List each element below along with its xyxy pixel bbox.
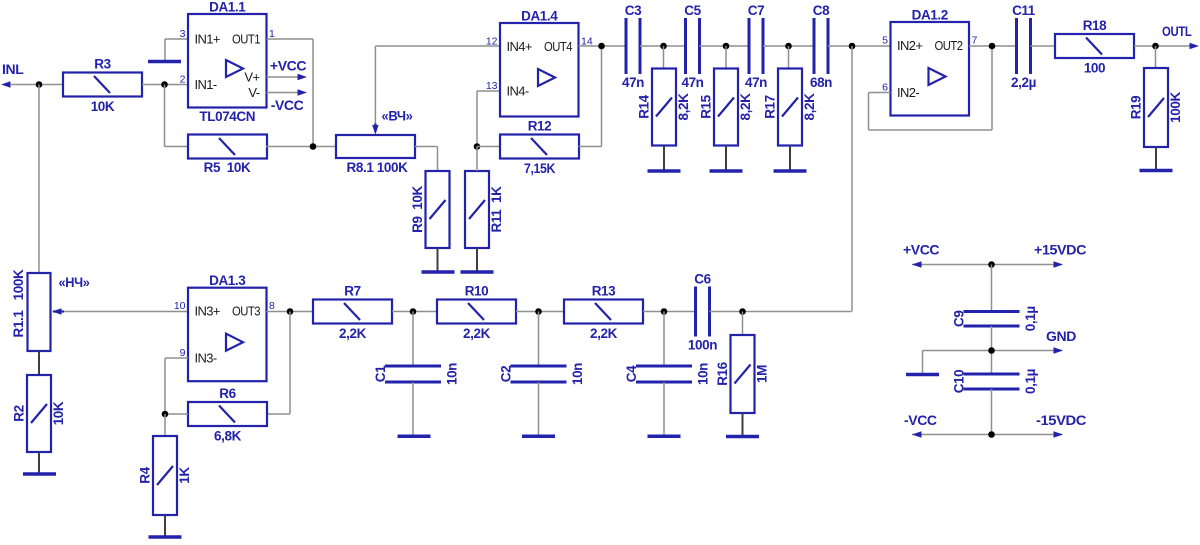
resistor R14 [637, 69, 692, 146]
ground under R14 [648, 169, 681, 173]
ground under R15 [710, 169, 743, 173]
op-amp DA1.4 [486, 9, 593, 117]
-15VDC right arrow [1054, 431, 1064, 438]
svg-text:47n: 47n [622, 75, 644, 90]
R1.1 wiper arrow [52, 308, 62, 315]
wire R19 to ground [1155, 147, 1157, 169]
wire R7 to R10 [392, 311, 437, 313]
svg-text:DA1.3: DA1.3 [209, 273, 246, 288]
resistor R7 [313, 284, 392, 342]
junction -VCC/C10 [988, 431, 995, 438]
svg-text:C3: C3 [625, 3, 642, 18]
potentiometer R8.1 body [336, 135, 415, 175]
svg-text:DA1.2: DA1.2 [912, 8, 948, 23]
INL input arrow [1, 81, 11, 88]
wire R17 to ground [789, 146, 791, 170]
resistor R16 [715, 335, 770, 413]
wire R5 to R8.1 [266, 146, 336, 148]
wire junction down to C4 [663, 312, 665, 367]
wire R6 left to junction [165, 413, 188, 415]
svg-text:R5 10K: R5 10K [204, 160, 251, 175]
wire R8.1 wiper up to IN4+ [375, 46, 500, 124]
wire GND to chassis [922, 351, 924, 374]
wire C7 to C8 [763, 45, 814, 47]
junction OUT2 feedback [989, 43, 996, 50]
wire INL junction down to R1.1 [38, 85, 40, 274]
wire -VCC rail [912, 434, 1062, 436]
wire +VCC down to C9 [991, 265, 993, 312]
svg-text:6,8K: 6,8K [214, 429, 242, 444]
wire R3 to IN1- [142, 84, 188, 86]
svg-text:C7: C7 [748, 3, 764, 18]
wire feedback vertical [851, 46, 853, 312]
svg-text:IN4+: IN4+ [507, 39, 532, 54]
svg-text:IN4-: IN4- [507, 84, 529, 99]
capacitor C10 [952, 369, 1039, 394]
capacitor C5 [681, 3, 703, 90]
capacitor C7 [745, 3, 767, 90]
wire C2 to ground [538, 382, 540, 435]
svg-text:1K: 1K [177, 467, 192, 484]
svg-text:R13: R13 [592, 284, 616, 299]
resistor R2 [12, 375, 67, 452]
svg-text:OUT2: OUT2 [935, 38, 963, 53]
wire R12 right to OUT4 [579, 46, 602, 147]
svg-text:OUT3: OUT3 [232, 304, 260, 319]
resistor R3 [63, 57, 142, 115]
junction C8/feedback [849, 43, 856, 50]
wire R11 to ground [476, 248, 478, 271]
svg-text:V+: V+ [244, 70, 259, 85]
wire junction down to R4 [164, 414, 166, 436]
svg-text:0,1µ: 0,1µ [1023, 369, 1038, 394]
junction +VCC/C9 [988, 261, 995, 268]
svg-text:R9 10K: R9 10K [410, 185, 425, 232]
junction R13/C4/C6 [661, 308, 668, 315]
potentiometer R1.1 body [28, 273, 51, 351]
svg-text:«НЧ»: «НЧ» [59, 274, 91, 290]
wire C8 to IN2+ [828, 45, 891, 47]
wire C5 to C7 [700, 45, 750, 47]
junction INL/R1.1 [36, 81, 43, 88]
svg-text:C10: C10 [952, 370, 967, 394]
wire IN2- feedback loop [869, 46, 993, 130]
svg-text:68n: 68n [810, 75, 832, 90]
svg-text:47n: 47n [681, 75, 703, 90]
svg-text:TL074CN: TL074CN [199, 109, 255, 124]
ground at GND rail [906, 373, 939, 377]
svg-text:C9: C9 [952, 311, 967, 327]
svg-text:IN1-: IN1- [195, 77, 217, 92]
svg-text:R4: R4 [138, 466, 153, 483]
svg-text:R7: R7 [344, 284, 360, 299]
svg-text:10K: 10K [91, 99, 115, 114]
svg-text:100K: 100K [1168, 92, 1183, 123]
wire R16 to ground [742, 413, 744, 435]
capacitor C8 [810, 3, 832, 90]
junction R6/R4/IN3- [162, 411, 169, 418]
wire IN1- junction down to R5 left [165, 85, 189, 147]
wire R14 to ground [663, 146, 665, 170]
capacitor C11 [1011, 3, 1036, 90]
wire OUT3 junction down to R6 [266, 312, 290, 415]
GND right arrow [1054, 347, 1064, 354]
junction OUT4/R12/C3 [598, 43, 605, 50]
svg-text:6: 6 [882, 82, 888, 94]
wire junction down to C2 [538, 312, 540, 367]
wire C11 to R18 [1031, 45, 1056, 47]
svg-text:R10: R10 [465, 284, 489, 299]
wire C9 to GND rail [991, 326, 993, 374]
capacitor C3 [622, 3, 644, 90]
svg-text:C1: C1 [373, 365, 388, 382]
wire pin3 to ground [165, 39, 188, 60]
svg-text:-15VDC: -15VDC [1036, 412, 1086, 428]
resistor R19 [1129, 68, 1184, 147]
resistor R12 [500, 119, 579, 177]
svg-text:1: 1 [269, 28, 275, 40]
svg-text:2,2K: 2,2K [590, 326, 618, 341]
svg-text:GND: GND [1046, 328, 1076, 344]
wire C6 to feedback [710, 311, 852, 313]
svg-text:2,2K: 2,2K [463, 326, 491, 341]
capacitor C9 [952, 306, 1039, 331]
svg-text:C8: C8 [813, 3, 830, 18]
svg-text:7,15K: 7,15K [524, 161, 556, 176]
wire C1 to ground [412, 382, 414, 435]
wire junction down to R16 [742, 312, 744, 336]
svg-text:R19: R19 [1129, 96, 1144, 120]
svg-text:100n: 100n [688, 338, 717, 353]
wire GND rail [923, 350, 1063, 352]
op-amp DA1.3 [174, 273, 275, 381]
svg-text:13: 13 [486, 80, 498, 92]
junction C3/R14 [660, 43, 667, 50]
wire R1.1 to R2 [38, 351, 40, 375]
svg-text:0,1µ: 0,1µ [1023, 306, 1038, 331]
wire V+ to +VCC arrow [267, 76, 305, 78]
ground under C4 [648, 435, 681, 439]
wire R18 to OUTL [1134, 45, 1194, 47]
wire R4 to ground [164, 515, 166, 536]
wire R15 to ground [725, 146, 727, 170]
svg-text:R12: R12 [528, 119, 552, 134]
junction IN4-/R11/R12 [474, 143, 481, 150]
svg-text:C6: C6 [694, 272, 711, 287]
resistor R10 [437, 284, 516, 342]
ground under C1 [398, 435, 431, 439]
wire junction down to R11 [476, 147, 478, 172]
resistor R18 [1055, 18, 1134, 76]
svg-text:10n: 10n [570, 363, 585, 385]
wire R8.1 right to R9 [415, 147, 438, 172]
wire junction down to R15 [725, 46, 727, 69]
wire junction down to R14 [663, 46, 665, 69]
op-amp DA1.1 [180, 0, 275, 124]
ground under R16 [726, 435, 759, 439]
svg-text:C2: C2 [499, 366, 514, 382]
capacitor C2 [499, 363, 586, 385]
svg-text:R15: R15 [699, 94, 714, 118]
svg-text:+VCC: +VCC [270, 58, 306, 74]
svg-text:8: 8 [269, 300, 275, 312]
resistor R11 [465, 171, 504, 248]
svg-text:R6: R6 [219, 386, 236, 401]
capacitor C6 [688, 272, 717, 353]
svg-text:12: 12 [486, 36, 498, 48]
ground at IN1+ [148, 60, 181, 64]
svg-text:R14: R14 [637, 94, 652, 118]
svg-text:2,2µ: 2,2µ [1011, 75, 1036, 90]
wire C4 to ground [663, 382, 665, 435]
svg-text:8,2K: 8,2K [738, 93, 753, 121]
resistor R17 [763, 69, 818, 146]
svg-text:+VCC: +VCC [903, 242, 939, 258]
junction IN1-/R5 [161, 81, 168, 88]
wire R1.1 wiper to IN3+ [63, 311, 188, 313]
ground under R2 [23, 472, 56, 476]
junction R7/R10/C1 [410, 308, 417, 315]
svg-text:3: 3 [180, 28, 186, 40]
svg-text:V-: V- [248, 85, 259, 100]
svg-text:R2: R2 [12, 405, 27, 421]
junction C6/R16 [739, 308, 746, 315]
OUTL output arrow [1190, 43, 1200, 50]
svg-text:+15VDC: +15VDC [1034, 242, 1086, 258]
+15VDC right arrow [1054, 261, 1064, 268]
ground under R19 [1140, 169, 1173, 173]
junction R10/R13/C2 [535, 308, 542, 315]
svg-text:DA1.1: DA1.1 [209, 0, 246, 15]
ground under R4 [149, 535, 182, 539]
svg-text:1M: 1M [755, 365, 770, 383]
wire OUT2 to C11 [969, 45, 1017, 47]
wire OUT4 to C3 [579, 45, 627, 47]
svg-text:5: 5 [882, 35, 888, 47]
ground under R9 [422, 270, 455, 274]
op-amp DA1.2 [882, 8, 977, 116]
R1.1 wiper arrow shaft [53, 310, 64, 312]
junction OUTL/R19 [1152, 43, 1159, 50]
svg-text:8,2K: 8,2K [802, 93, 817, 121]
svg-text:-VCC: -VCC [904, 412, 937, 428]
wire junction down to R17 [788, 46, 790, 69]
resistor R9 [410, 171, 450, 248]
svg-text:-VCC: -VCC [271, 97, 304, 113]
svg-text:OUT1: OUT1 [232, 32, 260, 47]
resistor R15 [699, 69, 754, 146]
wire junction to R12 left [477, 146, 500, 148]
svg-text:IN3-: IN3- [195, 351, 217, 366]
svg-text:R11 1K: R11 1K [489, 186, 504, 233]
svg-text:C11: C11 [1012, 3, 1036, 18]
wire V- to -VCC arrow [267, 92, 305, 94]
junction GND/C9/C10 [988, 347, 995, 354]
svg-text:100: 100 [1084, 61, 1105, 76]
junction C5/R15 [723, 43, 730, 50]
svg-text:IN3+: IN3+ [195, 304, 220, 319]
+VCC arrow at DA1.1 [298, 74, 308, 81]
wire R13 to C6 [643, 311, 696, 313]
svg-text:INL: INL [2, 61, 24, 77]
svg-text:R8.1 100K: R8.1 100K [347, 160, 409, 175]
junction OUT1/R5/R8.1 [310, 143, 317, 150]
wire IN4- loop [477, 91, 500, 147]
wire R10 to R13 [516, 311, 564, 313]
wire R9 to ground [437, 248, 439, 271]
wire OUT1 right and down [267, 39, 314, 147]
+VCC left arrow [912, 261, 922, 268]
junction OUT3/R6/R7 [287, 308, 294, 315]
svg-text:10n: 10n [696, 363, 711, 385]
wire INL to R3 [10, 84, 63, 86]
-VCC left arrow [912, 431, 922, 438]
R8.1 wiper arrow [372, 125, 379, 135]
R8.1 wiper arrow shaft [374, 124, 376, 133]
svg-text:DA1.4: DA1.4 [521, 9, 558, 24]
svg-text:IN1+: IN1+ [195, 32, 220, 47]
wire C10 to -VCC rail [991, 389, 993, 435]
svg-text:R3: R3 [94, 57, 111, 72]
svg-text:2: 2 [180, 74, 186, 86]
svg-text:IN2+: IN2+ [897, 38, 922, 53]
svg-text:47n: 47n [745, 75, 767, 90]
capacitor C1 [373, 363, 460, 385]
wire OUT3 right [267, 311, 314, 313]
svg-text:IN2-: IN2- [897, 85, 919, 100]
wire junction down to R19 [1155, 46, 1157, 68]
svg-text:10: 10 [174, 300, 186, 312]
wire C3 to C5 [640, 45, 686, 47]
capacitor C4 [624, 363, 711, 385]
wire +VCC rail [912, 264, 1062, 266]
wire junction down to C1 [412, 312, 414, 367]
ground under R11 [461, 270, 494, 274]
ground under R17 [774, 169, 807, 173]
svg-text:8,2K: 8,2K [676, 93, 691, 121]
resistor R13 [564, 284, 643, 342]
wire IN3- loop [165, 358, 188, 414]
svg-text:R1.1: R1.1 [11, 310, 26, 338]
svg-text:R16: R16 [715, 361, 730, 385]
svg-text:OUT4: OUT4 [544, 39, 572, 54]
resistor R6 [188, 386, 267, 444]
-VCC arrow at DA1.1 [298, 89, 308, 96]
svg-text:100K: 100K [11, 269, 26, 300]
resistor R4 [138, 436, 193, 515]
svg-text:OUTL: OUTL [1162, 23, 1192, 39]
svg-text:«ВЧ»: «ВЧ» [382, 108, 414, 124]
svg-text:10n: 10n [445, 363, 460, 385]
ground under C2 [522, 435, 555, 439]
svg-text:10K: 10K [51, 401, 66, 425]
svg-text:R18: R18 [1083, 18, 1107, 33]
svg-text:C5: C5 [684, 3, 701, 18]
svg-text:7: 7 [972, 35, 978, 47]
resistor R5 [188, 135, 267, 159]
svg-text:2,2K: 2,2K [339, 326, 367, 341]
svg-text:R17: R17 [763, 95, 778, 119]
svg-text:C4: C4 [624, 365, 639, 382]
wire R2 to ground [38, 452, 40, 473]
junction C7/R17 [785, 43, 792, 50]
